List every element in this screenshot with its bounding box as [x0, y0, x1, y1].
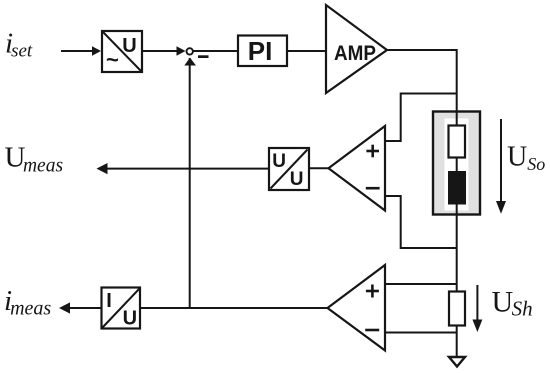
- svg-text:I: I: [106, 290, 112, 312]
- svg-text:PI: PI: [248, 36, 273, 66]
- svg-text:U: U: [122, 35, 136, 57]
- svg-text:U: U: [123, 307, 137, 329]
- svg-text:U: U: [272, 151, 286, 172]
- svg-text:~: ~: [106, 47, 119, 72]
- svg-text:AMP: AMP: [334, 41, 376, 65]
- svg-text:U: U: [290, 169, 304, 190]
